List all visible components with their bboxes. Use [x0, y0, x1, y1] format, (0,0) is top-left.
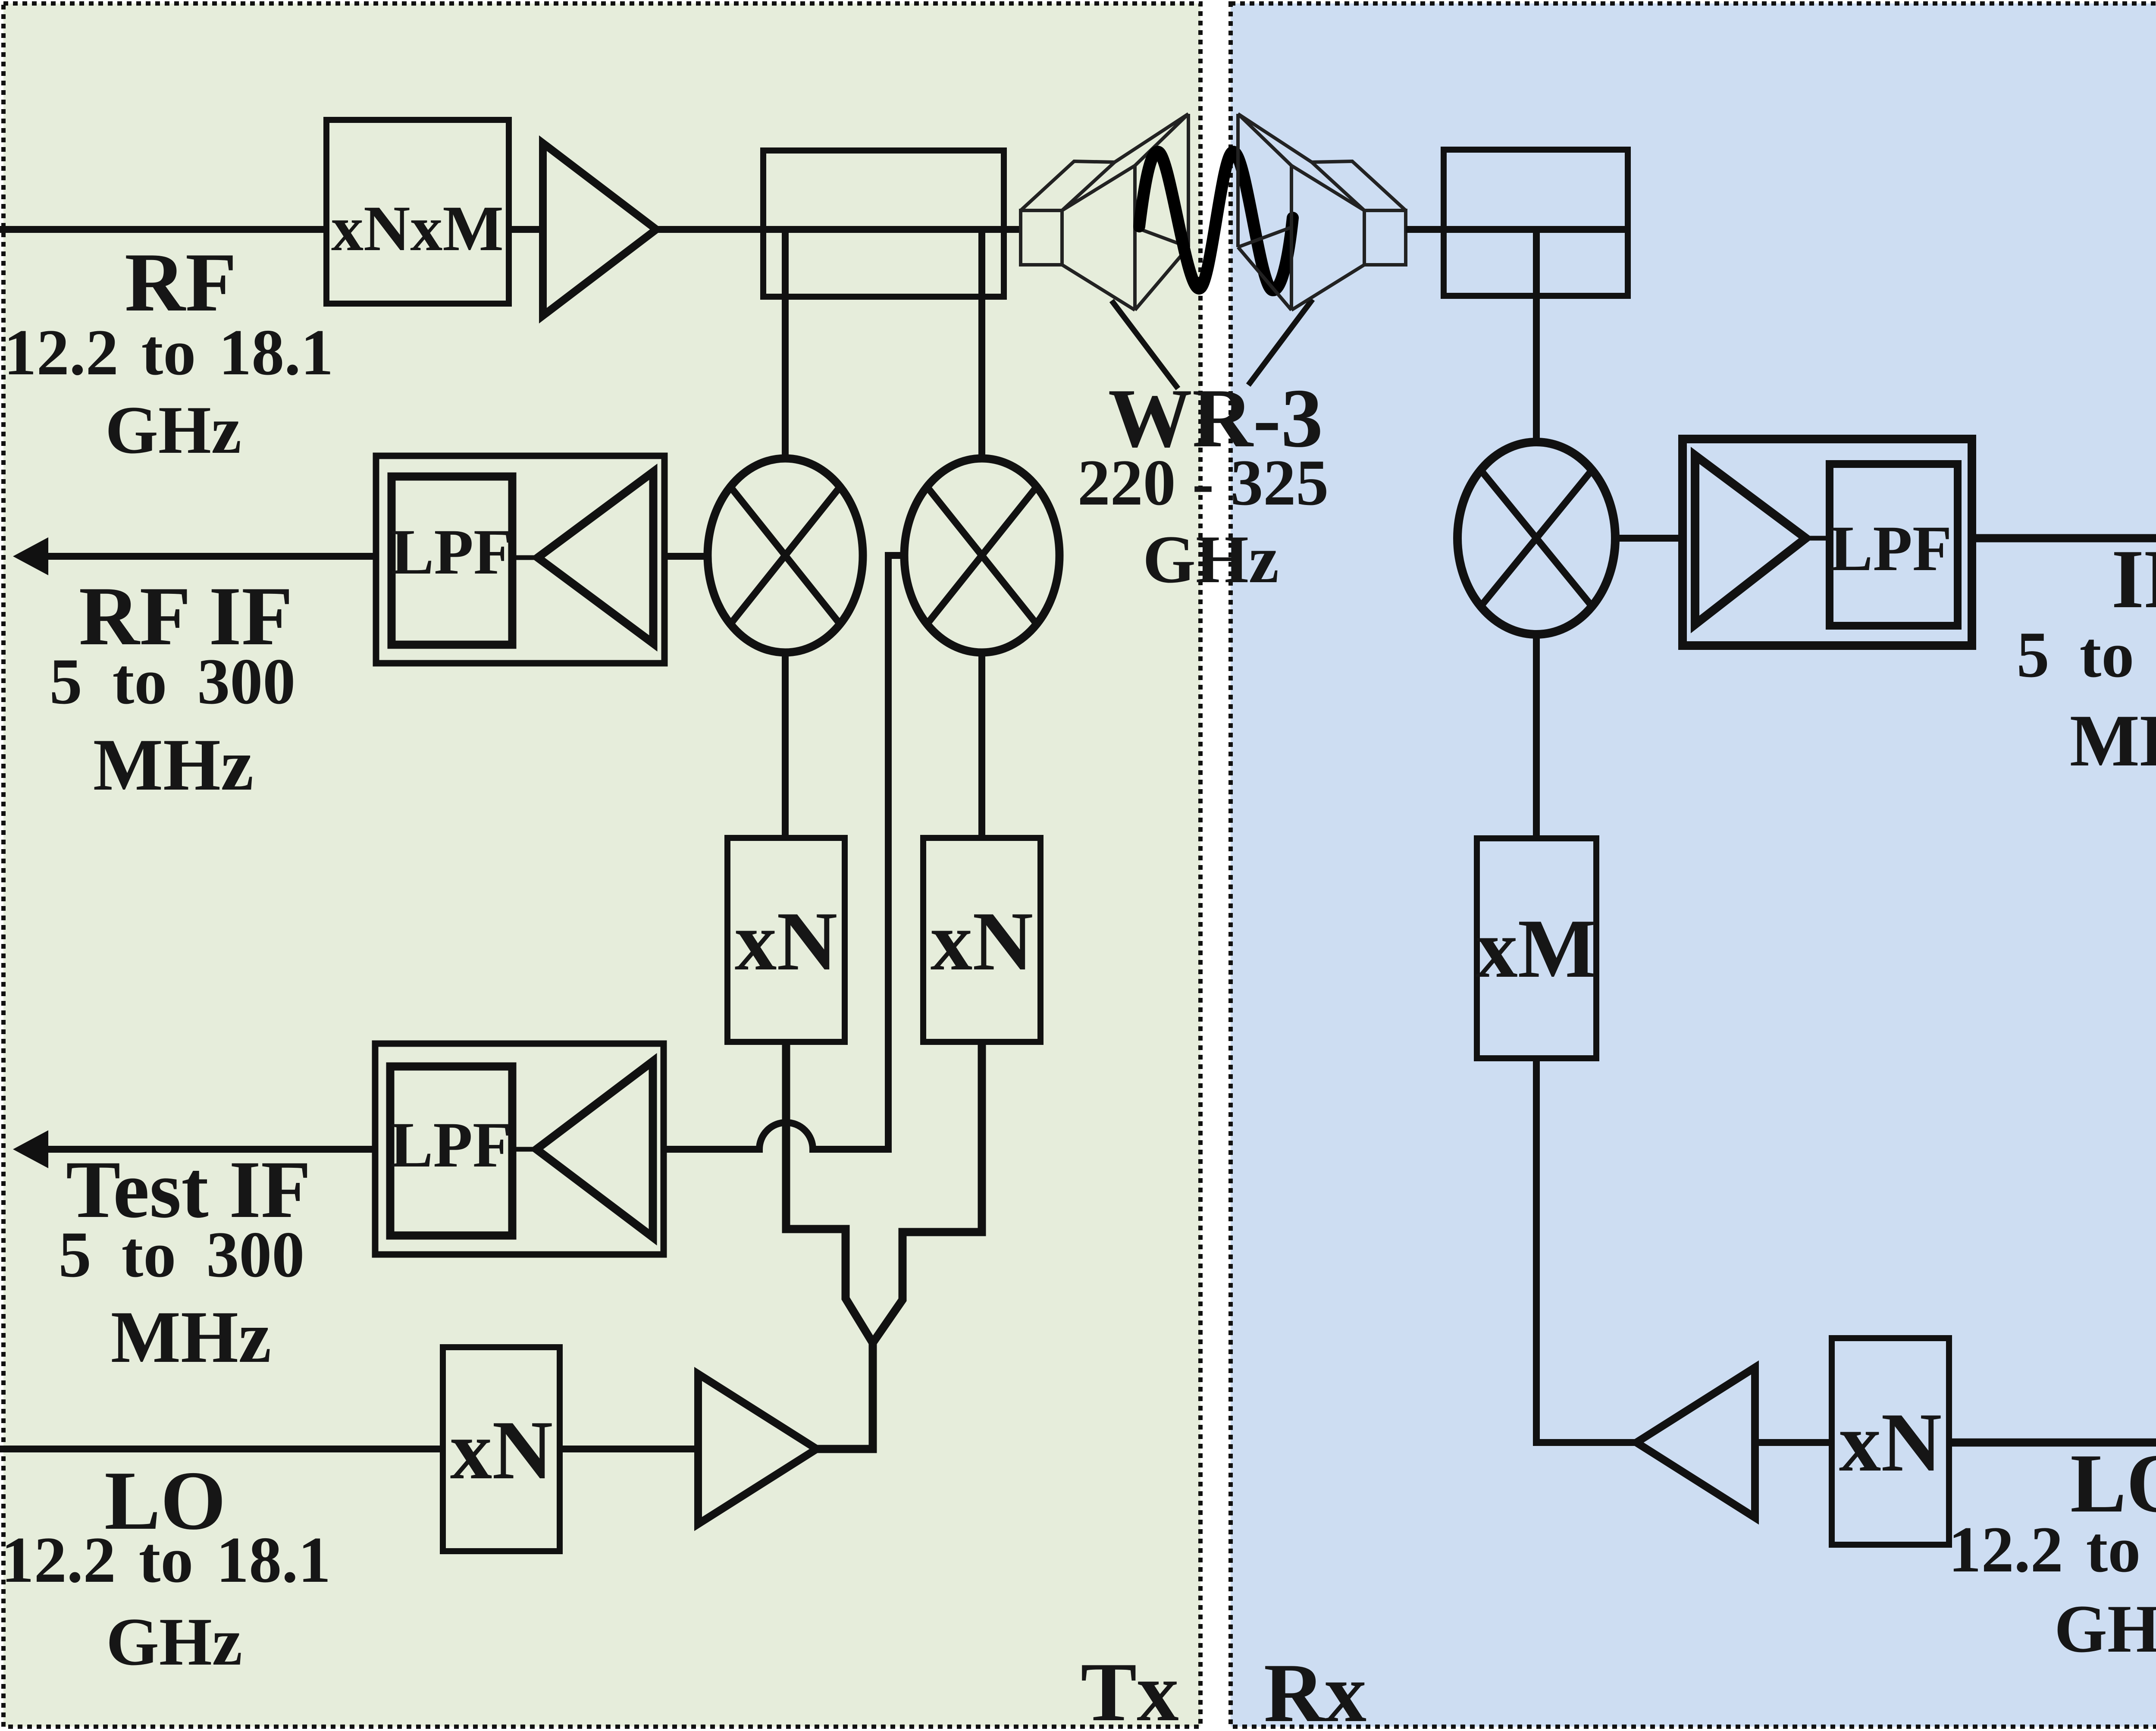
wire coupler tap 2 down to mixer M2 — [978, 229, 985, 459]
svg-text:12.2 to 18.1: 12.2 to 18.1 — [4, 316, 334, 389]
wire left xN output into splitter — [786, 1042, 873, 1343]
pointer line to Tx horn — [1112, 301, 1178, 389]
amplifier A3 (Rx LO, left-pointing) — [1636, 1367, 1755, 1518]
Tx region background — [3, 3, 1200, 1727]
Rx region background — [1231, 3, 2156, 1727]
wire A3 to Rx xN — [1755, 1439, 1834, 1446]
mixer M2 — [904, 458, 1059, 652]
wire coupler tap 1 down to mixer M1 — [782, 229, 789, 459]
amplifier A1 (Tx RF) — [543, 143, 656, 316]
svg-text:12.2 to 18.1: 12.2 to 18.1 — [1949, 1513, 2156, 1586]
amplifier A2 (LO) — [698, 1374, 817, 1524]
wire LO xN to amp — [560, 1446, 699, 1452]
multiplier xNxM — [326, 120, 509, 304]
svg-text:LPF: LPF — [391, 516, 513, 588]
coupler box — [763, 151, 1004, 297]
wire M3 down to xM — [1533, 634, 1540, 840]
wire LO input — [0, 1446, 445, 1452]
svg-text:Tx: Tx — [1081, 1646, 1179, 1731]
svg-text:LPF: LPF — [390, 1109, 512, 1181]
svg-text:MHz: MHz — [2070, 700, 2156, 782]
arrow Rx LO — [1949, 1421, 2156, 1464]
svg-text:GHz: GHz — [105, 392, 241, 468]
mixer M3 (Rx) — [1457, 442, 1615, 634]
svg-text:xN: xN — [1839, 1396, 1942, 1489]
radiated wave squiggle — [1139, 152, 1293, 290]
svg-text:5 to 300: 5 to 300 — [50, 645, 296, 718]
svg-text:xM: xM — [1476, 902, 1597, 995]
pointer line to Rx horn — [1248, 299, 1313, 385]
wire splitter stem — [815, 1340, 873, 1449]
svg-text:xNxM: xNxM — [331, 193, 504, 264]
Rx IF amp-filter block — [1683, 439, 1972, 646]
wire xNxM to amp A1 — [509, 226, 544, 233]
svg-text:220 - 325: 220 - 325 — [1078, 446, 1329, 519]
wire M1 IF output to RF IF amp block — [664, 553, 709, 560]
wire right xN output into splitter — [873, 1042, 982, 1343]
svg-text:GHz: GHz — [1143, 522, 1279, 597]
svg-text:IF: IF — [2112, 533, 2156, 626]
multiplier xN (right) — [923, 838, 1040, 1042]
mixer M1 — [708, 458, 863, 652]
RF IF filter-amp block — [376, 456, 664, 663]
wire Rx box down to mixer M3 — [1533, 229, 1540, 443]
svg-text:12.2 to 18.1: 12.2 to 18.1 — [1, 1524, 331, 1596]
wire A1 to horn through coupler — [656, 226, 1022, 233]
svg-text:xN: xN — [735, 895, 837, 988]
arrow RF IF output — [13, 537, 376, 575]
wire M1 LO port down to left xN — [782, 652, 789, 838]
wire Rx horn to front-end box — [1406, 226, 1625, 233]
arrow IF output — [1972, 517, 2156, 559]
multiplier xN (LO) — [443, 1347, 560, 1551]
svg-text:MHz: MHz — [93, 724, 254, 806]
svg-text:5 to 300: 5 to 300 — [2017, 618, 2156, 691]
Test IF filter-amp block — [375, 1044, 664, 1254]
wire RF input — [0, 226, 329, 233]
svg-text:Rx: Rx — [1264, 1646, 1366, 1731]
svg-text:5 to 300: 5 to 300 — [59, 1218, 305, 1291]
Tx horn antenna — [1021, 114, 1188, 310]
svg-text:MHz: MHz — [111, 1296, 271, 1378]
wire xM down and right to Rx LO amp — [1536, 1058, 1639, 1442]
svg-text:xN: xN — [450, 1404, 553, 1497]
wire M2 left port down and across with hop to Test IF amp — [664, 555, 904, 1149]
Rx front-end box — [1444, 150, 1628, 296]
Rx horn antenna — [1238, 114, 1406, 310]
arrow Test IF output — [13, 1130, 375, 1168]
multiplier xM — [1476, 838, 1597, 1058]
multiplier xN (left) — [727, 838, 845, 1042]
wire M2 LO port down to right xN — [978, 652, 985, 838]
svg-text:GHz: GHz — [106, 1604, 242, 1680]
wire M3 to Rx IF amp block — [1615, 535, 1683, 542]
svg-text:RF: RF — [125, 236, 237, 329]
svg-text:xN: xN — [931, 895, 1033, 988]
svg-text:LPF: LPF — [1830, 513, 1952, 584]
svg-text:GHz: GHz — [2054, 1591, 2156, 1667]
multiplier xN (Rx) — [1832, 1338, 1949, 1545]
